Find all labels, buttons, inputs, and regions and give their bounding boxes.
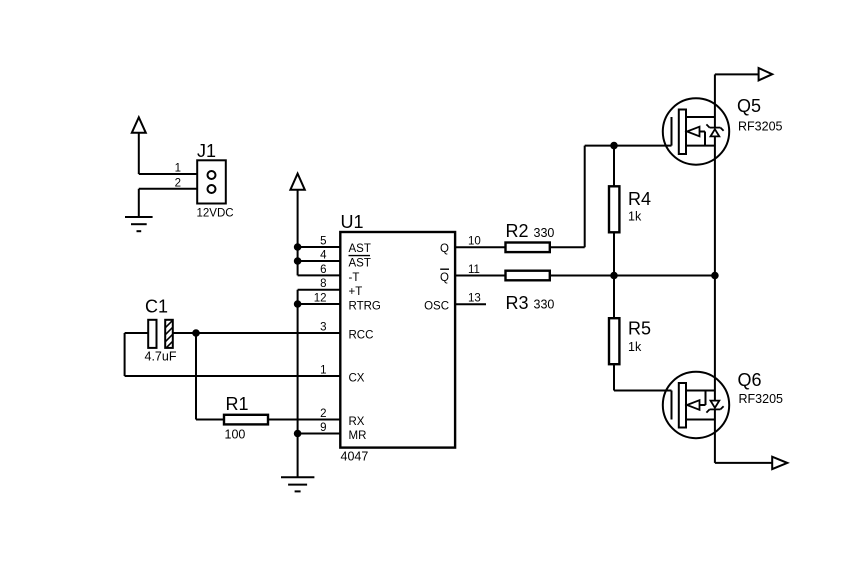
svg-text:OSC: OSC bbox=[424, 300, 449, 312]
svg-text:RF3205: RF3205 bbox=[738, 120, 783, 134]
power arrow VCC (left of J1) bbox=[132, 117, 146, 174]
svg-text:4047: 4047 bbox=[341, 450, 369, 464]
wire pin3 RCC from C1 bbox=[173, 332, 341, 334]
wire pin8 +T bbox=[298, 289, 341, 291]
resistor R3 bbox=[506, 271, 550, 281]
wire R2 to corner bbox=[550, 246, 585, 248]
wire R5 top lead bbox=[613, 276, 615, 319]
svg-text:1k: 1k bbox=[628, 210, 642, 224]
connector J1 bbox=[197, 160, 226, 203]
svg-text:4.7uF: 4.7uF bbox=[145, 349, 177, 363]
wire pin4 AST-bar bbox=[298, 260, 341, 262]
svg-text:AST: AST bbox=[349, 257, 371, 269]
svg-text:AST: AST bbox=[349, 243, 371, 255]
wire pin11 Q-bar bbox=[455, 275, 505, 277]
junction dot pin12 bbox=[294, 300, 302, 308]
svg-text:13: 13 bbox=[468, 293, 481, 305]
wire pin13 OSC stub bbox=[455, 303, 486, 305]
svg-text:12VDC: 12VDC bbox=[197, 207, 234, 219]
junction dot R4 top bbox=[610, 142, 618, 150]
svg-text:MR: MR bbox=[349, 430, 367, 442]
svg-text:5: 5 bbox=[320, 236, 326, 248]
wire rail top (drain Q5 up) bbox=[714, 74, 716, 127]
wire pin1 CX bbox=[125, 375, 341, 377]
transistor Q5 bbox=[663, 98, 729, 164]
wire rail middle bbox=[714, 136, 716, 400]
svg-text:100: 100 bbox=[225, 428, 246, 442]
resistor R5 bbox=[609, 318, 619, 364]
junction dot pin9 bbox=[294, 430, 302, 438]
wire to Q5 gate bbox=[585, 145, 672, 147]
IC U1 body bbox=[340, 232, 455, 448]
svg-text:6: 6 bbox=[320, 264, 326, 276]
svg-text:C1: C1 bbox=[145, 297, 168, 317]
svg-text:R4: R4 bbox=[628, 189, 651, 209]
wire R5 bottom lead bbox=[613, 364, 615, 390]
wire pin12 RTRG bbox=[298, 303, 341, 305]
resistor R2 bbox=[506, 243, 550, 253]
svg-text:Q: Q bbox=[440, 272, 449, 284]
svg-text:330: 330 bbox=[534, 226, 555, 240]
svg-text:1: 1 bbox=[175, 163, 181, 175]
svg-text:R2: R2 bbox=[506, 221, 529, 241]
svg-text:330: 330 bbox=[534, 298, 555, 312]
svg-text:+T: +T bbox=[349, 286, 363, 298]
junction dot pin4 bbox=[294, 257, 302, 265]
svg-text:R1: R1 bbox=[226, 394, 249, 414]
svg-text:2: 2 bbox=[175, 177, 181, 189]
body diode Q6 (zener-style) bbox=[711, 401, 720, 408]
wire output top bbox=[715, 73, 759, 75]
wire J1 pin 2 bbox=[139, 188, 208, 190]
pin name AST-bar bbox=[349, 256, 371, 270]
wire pin10 Q bbox=[455, 246, 505, 248]
wire R3 to rail bbox=[550, 275, 715, 277]
wire J1 pin 1 bbox=[139, 173, 208, 175]
junction dot pin5 bbox=[294, 243, 302, 251]
svg-text:RCC: RCC bbox=[349, 329, 374, 341]
wire left vertical to CX bbox=[124, 333, 126, 376]
junction dot rail bbox=[711, 272, 719, 280]
wire C1 left bbox=[125, 332, 149, 334]
junction dot R4/R5 bbox=[610, 272, 618, 280]
wire pin5 AST bbox=[298, 246, 341, 248]
svg-text:1: 1 bbox=[320, 365, 326, 377]
svg-text:RF3205: RF3205 bbox=[739, 392, 784, 406]
svg-text:R5: R5 bbox=[628, 319, 651, 339]
output arrow top bbox=[759, 68, 773, 80]
svg-text:Q6: Q6 bbox=[738, 370, 762, 390]
svg-text:Q5: Q5 bbox=[737, 96, 761, 116]
junction dot C1-RCC bbox=[192, 329, 200, 337]
svg-text:CX: CX bbox=[349, 372, 365, 384]
body diode Q5 (zener-style) bbox=[711, 129, 720, 136]
power arrow VCC (above U1) bbox=[290, 174, 304, 276]
svg-text:12: 12 bbox=[314, 293, 327, 305]
svg-text:11: 11 bbox=[468, 264, 480, 276]
svg-text:R3: R3 bbox=[506, 293, 529, 313]
resistor R1 bbox=[224, 415, 268, 425]
svg-text:1k: 1k bbox=[628, 340, 642, 354]
wire rail bottom bbox=[714, 409, 716, 463]
wire J1 pin 2 down bbox=[138, 189, 140, 217]
svg-text:8: 8 bbox=[320, 278, 326, 290]
svg-text:9: 9 bbox=[320, 422, 326, 434]
wire R4 top lead bbox=[613, 146, 615, 187]
wire pin9 MR bbox=[298, 433, 341, 435]
svg-text:4: 4 bbox=[320, 250, 327, 262]
wire junction down to R1 bbox=[195, 333, 197, 420]
capacitor C1 bbox=[148, 310, 176, 363]
svg-text:RTRG: RTRG bbox=[349, 300, 381, 312]
transistor Q6 bbox=[663, 372, 729, 438]
output arrow bottom bbox=[772, 457, 787, 469]
svg-text:-T: -T bbox=[349, 272, 360, 284]
wire to R1 bbox=[196, 419, 224, 421]
svg-text:3: 3 bbox=[320, 322, 326, 334]
wire R4 bottom lead bbox=[613, 232, 615, 275]
svg-text:2: 2 bbox=[320, 408, 326, 420]
wire to Q6 gate bbox=[614, 390, 672, 392]
wire pin2 RX bbox=[268, 419, 341, 421]
svg-text:10: 10 bbox=[468, 236, 481, 248]
svg-text:U1: U1 bbox=[341, 212, 364, 232]
ground (below J1) bbox=[125, 217, 153, 231]
pin name Q-bar bbox=[440, 269, 449, 284]
wire output bottom bbox=[715, 462, 772, 464]
svg-text:J1: J1 bbox=[197, 141, 216, 161]
wire vertical pin8 to ground bbox=[297, 290, 299, 478]
resistor R4 bbox=[609, 186, 619, 232]
wire pin6 -T bbox=[298, 274, 341, 276]
ground (below U1) bbox=[281, 477, 314, 491]
wire corner up bbox=[584, 146, 586, 248]
svg-text:RX: RX bbox=[349, 416, 365, 428]
svg-text:Q: Q bbox=[440, 243, 449, 255]
